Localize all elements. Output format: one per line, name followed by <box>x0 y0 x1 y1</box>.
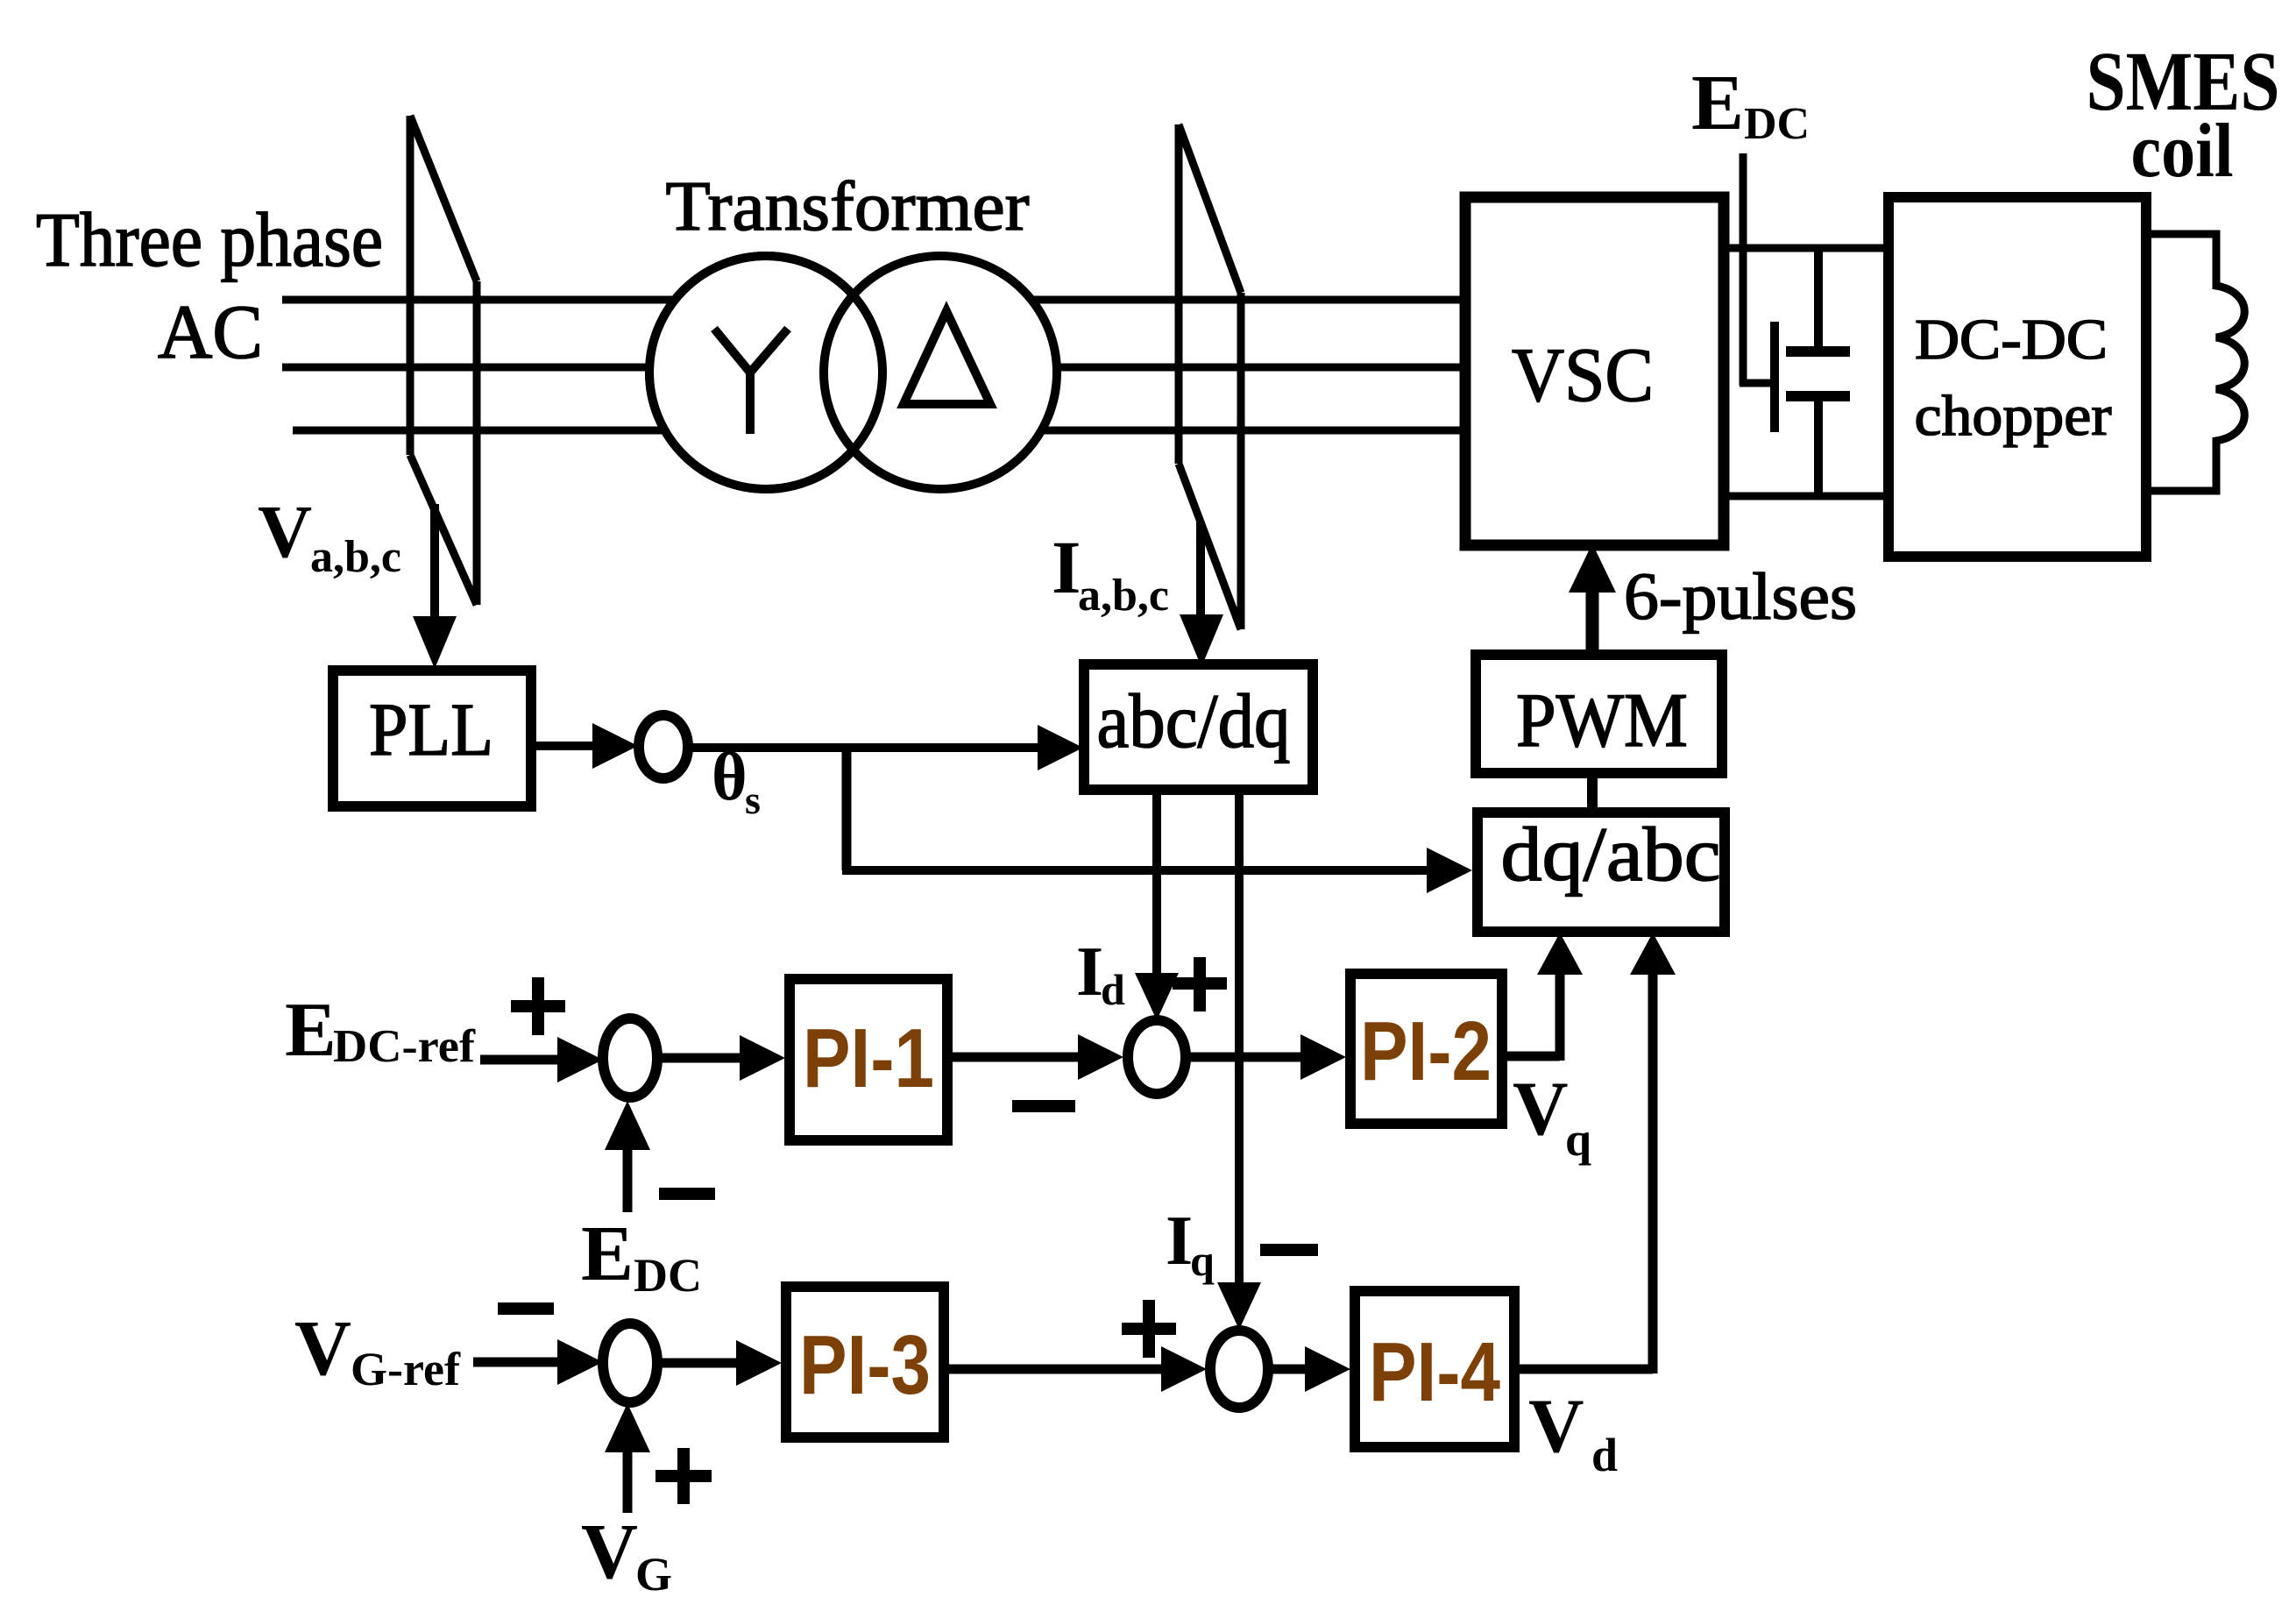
svg-text:E: E <box>581 1210 634 1297</box>
svg-text:Transformer: Transformer <box>666 168 1030 245</box>
svg-text:V: V <box>581 1508 638 1595</box>
wire sum3 to PI-3 arrow <box>657 1340 782 1386</box>
svg-text:DC: DC <box>634 1249 702 1302</box>
block PI-3 <box>786 1287 944 1437</box>
wire DC rail top <box>1724 245 1889 252</box>
wire bus phase A <box>282 296 1470 304</box>
node sum4 <box>1210 1331 1268 1408</box>
block DC-DC chopper <box>1889 197 2146 557</box>
block PLL <box>333 671 531 806</box>
wire sum2 to PI-2 arrow <box>1186 1034 1346 1080</box>
wire 6-pulses arrow PWM to VSC <box>1569 543 1616 655</box>
node theta-s circle <box>639 715 688 778</box>
svg-text:AC: AC <box>158 290 263 375</box>
svg-text:DC: DC <box>1744 99 1810 149</box>
label plus at VG <box>655 1448 712 1504</box>
label VG <box>581 1508 672 1600</box>
capacitor C1 <box>1786 248 1850 496</box>
svg-text:VSC: VSC <box>1512 333 1654 418</box>
transformer T1 Y-Delta <box>649 256 1057 489</box>
wire sum1 to PI-1 arrow <box>657 1035 785 1081</box>
wire PLL output arrow <box>532 723 638 769</box>
wire PWM to dq/abc connector <box>1587 773 1598 813</box>
wire bus phase B <box>282 364 1470 372</box>
label minus at EDC feedback <box>659 1188 715 1200</box>
label minus at Iq <box>1260 1244 1318 1256</box>
svg-text:q: q <box>1190 1236 1215 1285</box>
svg-text:d: d <box>1591 1429 1618 1481</box>
svg-text:V: V <box>1528 1384 1584 1469</box>
measurement tap M2 (current) <box>1179 124 1241 629</box>
wire sum4 to PI-4 arrow <box>1268 1346 1350 1392</box>
svg-text:PLL: PLL <box>369 687 493 771</box>
wire VG arrow to sum3 <box>605 1403 650 1513</box>
svg-text:PI-4: PI-4 <box>1369 1325 1500 1419</box>
wire EDC-ref to sum1 arrow <box>480 1037 603 1082</box>
svg-text:Three phase: Three phase <box>36 198 383 283</box>
label EDC-ref <box>285 988 476 1073</box>
wire EDC sense line <box>1740 153 1775 432</box>
wire bus phase C <box>293 427 1470 435</box>
label theta-s <box>712 738 761 822</box>
inductor SMES coil <box>2146 234 2244 491</box>
svg-text:s: s <box>745 777 761 822</box>
label VG-ref <box>294 1305 461 1395</box>
svg-text:q: q <box>1565 1113 1591 1166</box>
svg-text:E: E <box>1691 60 1744 146</box>
wire Iabc arrow to abc/dq <box>1180 522 1223 667</box>
block PI-4 <box>1355 1291 1514 1447</box>
label EDC mid <box>581 1210 702 1302</box>
svg-text:V: V <box>294 1305 351 1392</box>
node sum2 <box>1128 1020 1186 1094</box>
measurement tap M1 (voltage) <box>410 116 477 605</box>
wire Id output of abc/dq <box>1135 790 1179 1020</box>
svg-text:E: E <box>285 988 337 1073</box>
wire PI-1 to sum2 arrow <box>947 1034 1123 1080</box>
label 6-pulses <box>1624 560 1857 634</box>
svg-text:abc/dq: abc/dq <box>1097 679 1291 764</box>
label minus after PI-1 <box>1012 1100 1075 1112</box>
wire EDC feedback arrow to sum1 <box>605 1101 650 1212</box>
node sum1 <box>603 1018 657 1097</box>
label Vabc <box>258 489 401 582</box>
label EDC top <box>1691 60 1810 149</box>
svg-text:DC-DC: DC-DC <box>1915 308 2108 372</box>
label minus at VG-ref <box>498 1302 554 1315</box>
label Vq <box>1513 1067 1591 1166</box>
label plus at EDC-ref <box>511 977 565 1035</box>
svg-text:a,b,c: a,b,c <box>1078 571 1169 621</box>
svg-text:dq/abc: dq/abc <box>1501 813 1721 898</box>
wire Vabc arrow to PLL <box>413 504 457 669</box>
svg-text:DC-ref: DC-ref <box>333 1021 476 1072</box>
svg-text:V: V <box>1513 1067 1569 1152</box>
svg-text:PI-3: PI-3 <box>799 1318 931 1412</box>
wire theta-s to abc/dq arrow <box>688 725 1083 770</box>
wire Iq output of abc/dq <box>1217 790 1261 1330</box>
label plus at sum4 <box>1122 1300 1176 1358</box>
block PI-2 <box>1350 974 1502 1124</box>
label Transformer <box>666 168 1030 245</box>
label Iq <box>1166 1203 1215 1285</box>
block abc/dq <box>1084 664 1313 790</box>
svg-text:d: d <box>1101 965 1125 1014</box>
svg-text:chopper: chopper <box>1915 384 2112 448</box>
svg-text:PI-1: PI-1 <box>803 1011 934 1105</box>
label Three phase AC <box>36 198 383 375</box>
svg-text:PI-2: PI-2 <box>1360 1004 1492 1098</box>
block dq/abc <box>1478 813 1725 932</box>
svg-text:I: I <box>1052 525 1081 609</box>
node sum3 <box>603 1324 657 1402</box>
wire Vq PI-2 to dq/abc arrow <box>1502 933 1583 1061</box>
svg-text:a,b,c: a,b,c <box>310 532 401 582</box>
label plus at Id <box>1173 957 1227 1011</box>
wire theta-s branch to dq/abc arrow <box>842 748 1472 893</box>
label SMES coil <box>2087 34 2280 194</box>
svg-text:coil: coil <box>2131 109 2234 194</box>
wire PI-3 to sum4 arrow <box>944 1346 1207 1392</box>
label Vd <box>1528 1384 1618 1481</box>
block VSC <box>1465 197 1724 545</box>
svg-text:G-ref: G-ref <box>351 1343 461 1395</box>
svg-text:PWM: PWM <box>1516 678 1688 763</box>
svg-text:6-pulses: 6-pulses <box>1624 560 1857 634</box>
svg-text:G: G <box>635 1548 672 1600</box>
svg-text:I: I <box>1076 933 1103 1011</box>
wire DC rail bottom <box>1724 493 1889 500</box>
block PWM <box>1476 655 1722 773</box>
wire VG-ref to sum3 arrow <box>473 1339 603 1385</box>
svg-text:I: I <box>1166 1203 1193 1280</box>
wire Vd PI-4 to dq/abc arrow <box>1514 933 1676 1373</box>
label Id <box>1076 933 1125 1014</box>
block PI-1 <box>790 979 947 1140</box>
label Iabc <box>1052 525 1169 621</box>
svg-text:V: V <box>258 489 312 573</box>
